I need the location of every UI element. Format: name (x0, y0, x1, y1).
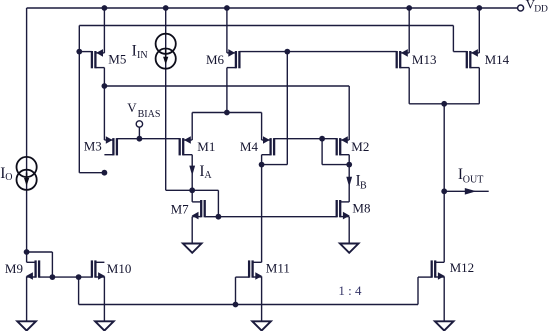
svg-text:M8: M8 (352, 200, 370, 215)
current source IIN (156, 34, 176, 69)
svg-text:M4: M4 (240, 139, 259, 154)
node dot M6 drain (224, 110, 230, 116)
wire M8 source (348, 217, 350, 244)
node dot M5 drain (102, 83, 108, 89)
label VDD (526, 0, 548, 14)
wire M7 drain stub (191, 190, 193, 202)
wire M6drain spread (192, 112, 261, 114)
svg-text:M6: M6 (206, 52, 225, 67)
wire M4 source (261, 113, 263, 141)
arrow IA (189, 166, 195, 176)
svg-text:OUT: OUT (463, 174, 484, 185)
svg-text:M5: M5 (108, 52, 126, 67)
terminal VBIAS (136, 121, 142, 127)
label IOUT (458, 166, 483, 185)
wire M10gate drop (78, 277, 80, 304)
wire lineB drop to M4 drain (286, 52, 288, 165)
svg-text:M3: M3 (84, 138, 102, 153)
wire IA loop (192, 190, 218, 216)
label M2 (351, 139, 369, 154)
wire M5 drain column (103, 68, 105, 140)
label IB (356, 173, 368, 192)
svg-text:B: B (360, 180, 367, 191)
ground M7 (183, 244, 202, 253)
node dot IO-M9 (24, 249, 30, 255)
wire rail down to IO source (26, 8, 28, 252)
label IIN (132, 43, 148, 61)
node dot row2 gate (319, 136, 325, 142)
wire gate-bias line A (79, 25, 453, 27)
transistor M10 (92, 260, 105, 279)
node dot M9 loop (50, 274, 56, 280)
transistor M2 (337, 136, 350, 155)
node dot rail-IIN (163, 5, 169, 11)
node dot rail-M5 (102, 5, 108, 11)
node dot M11 gate drop (233, 302, 239, 308)
ground M10 (95, 321, 114, 330)
label IO (0, 165, 12, 183)
wire M9 diode loop (27, 252, 53, 277)
svg-text:M1: M1 (197, 139, 215, 154)
wire M1 source (191, 113, 193, 141)
ground M12 (435, 321, 454, 330)
wire M12 gate (418, 277, 432, 304)
svg-text:A: A (204, 170, 212, 181)
label M1 (197, 139, 215, 154)
label M14 (485, 52, 510, 67)
wire M9 drain stub (26, 252, 28, 262)
label M9 (5, 261, 23, 276)
wire row2 gate line (274, 138, 337, 140)
wire M14 drain (478, 68, 480, 104)
label M13 (412, 52, 437, 67)
wire IOUT line (444, 190, 489, 192)
wire M12 source (443, 276, 445, 321)
node dot VBIAS (137, 136, 143, 142)
svg-text:M12: M12 (450, 260, 475, 275)
node dot M2 drain (346, 162, 352, 168)
wire IOUT column (443, 104, 445, 262)
wire M6 drain (226, 68, 228, 113)
arrow IOUT (465, 188, 477, 195)
wire M9 source (26, 276, 28, 321)
svg-text:M9: M9 (5, 261, 23, 276)
ground M9 (17, 321, 36, 330)
wire M4drain tie (262, 164, 288, 166)
wire IIN drop (165, 8, 167, 190)
node dot M3 drain (102, 170, 108, 176)
label ratio 1:4 (338, 283, 362, 298)
wire M14 source (478, 8, 480, 53)
transistor M5 (79, 49, 104, 68)
wire M13-M14 join (409, 103, 479, 105)
wire M9-M10 gate line (39, 276, 92, 278)
wire M7-M8 gate line (218, 216, 336, 218)
wire M10 source (103, 276, 105, 321)
svg-text:V: V (127, 100, 137, 115)
label M7 (171, 202, 190, 217)
wire M2 source (348, 86, 350, 140)
label M6 (206, 52, 225, 67)
node dot IA (189, 187, 195, 193)
svg-text:M2: M2 (351, 139, 369, 154)
wire M6 source (226, 8, 228, 53)
svg-text:M11: M11 (266, 261, 290, 276)
label M10 (107, 261, 132, 276)
wire M5drain to M2source (104, 85, 349, 87)
wire M4 drain column (261, 155, 263, 263)
wire VBIAS stem (138, 127, 140, 139)
node dot rail-M6 (224, 5, 230, 11)
wire M2 diode loop (322, 139, 349, 165)
wire M11 source (261, 276, 263, 321)
transistor M3 (104, 136, 117, 155)
label IA (199, 163, 212, 181)
transistor M13 (397, 49, 410, 68)
ground M8 (340, 244, 359, 253)
transistor M7 (192, 200, 219, 219)
node dot IOUT (441, 188, 447, 194)
svg-text:M7: M7 (171, 202, 190, 217)
wire M13 drain (408, 68, 410, 104)
node dot rail-M14 (476, 5, 482, 11)
svg-text:1 : 4: 1 : 4 (338, 283, 362, 298)
wire M5 source (103, 8, 105, 53)
wire M14 gate lead ext (453, 51, 466, 53)
wire IIN to IA node (166, 189, 193, 191)
node dot out join (441, 101, 447, 107)
transistor M4 (262, 136, 275, 155)
wire gate line B (239, 51, 396, 53)
wire VDD rail (27, 7, 518, 9)
transistor M6 (227, 49, 240, 68)
svg-text:DD: DD (534, 4, 548, 14)
current source IO (17, 157, 37, 190)
transistor M8 (337, 200, 350, 219)
node dot M7 gate (216, 214, 222, 220)
svg-text:M10: M10 (107, 261, 132, 276)
transistor M1 (180, 136, 193, 155)
wire M2 drain IB (348, 155, 350, 202)
wire M11 gate (236, 277, 250, 304)
terminal VDD (518, 5, 524, 11)
node dot M4 drain (259, 162, 265, 168)
wire M13 source (408, 8, 410, 53)
svg-text:M14: M14 (485, 52, 510, 67)
arrow IB (346, 177, 352, 187)
node dot M5 gate (76, 49, 82, 55)
transistor M12 (432, 260, 445, 279)
label VBIAS (127, 100, 160, 120)
wire lineA right drop (452, 26, 454, 52)
ground M11 (252, 321, 271, 330)
wire M7 source (191, 217, 193, 244)
wire lineA left drop (78, 26, 80, 173)
transistor M14 (467, 49, 480, 68)
svg-text:BIAS: BIAS (138, 109, 161, 120)
svg-text:IN: IN (137, 50, 148, 61)
wire bottom mirror line (79, 304, 418, 306)
label M12 (450, 260, 475, 275)
label M5 (108, 52, 126, 67)
svg-text:O: O (5, 172, 12, 183)
wire VBIAS line (117, 138, 180, 140)
label M3 (84, 138, 102, 153)
wire M1 drain IA (191, 155, 193, 191)
wire M3 drain tie (79, 172, 104, 174)
label M11 (266, 261, 290, 276)
svg-text:I: I (132, 43, 137, 60)
node dot M10 gate drop (76, 274, 82, 280)
transistor M9 (26, 260, 39, 279)
label M8 (352, 200, 370, 215)
label M4 (240, 139, 259, 154)
node dot rail-M13 (406, 5, 412, 11)
node dot lineB (284, 49, 290, 55)
transistor M11 (249, 260, 262, 279)
svg-text:M13: M13 (412, 52, 437, 67)
